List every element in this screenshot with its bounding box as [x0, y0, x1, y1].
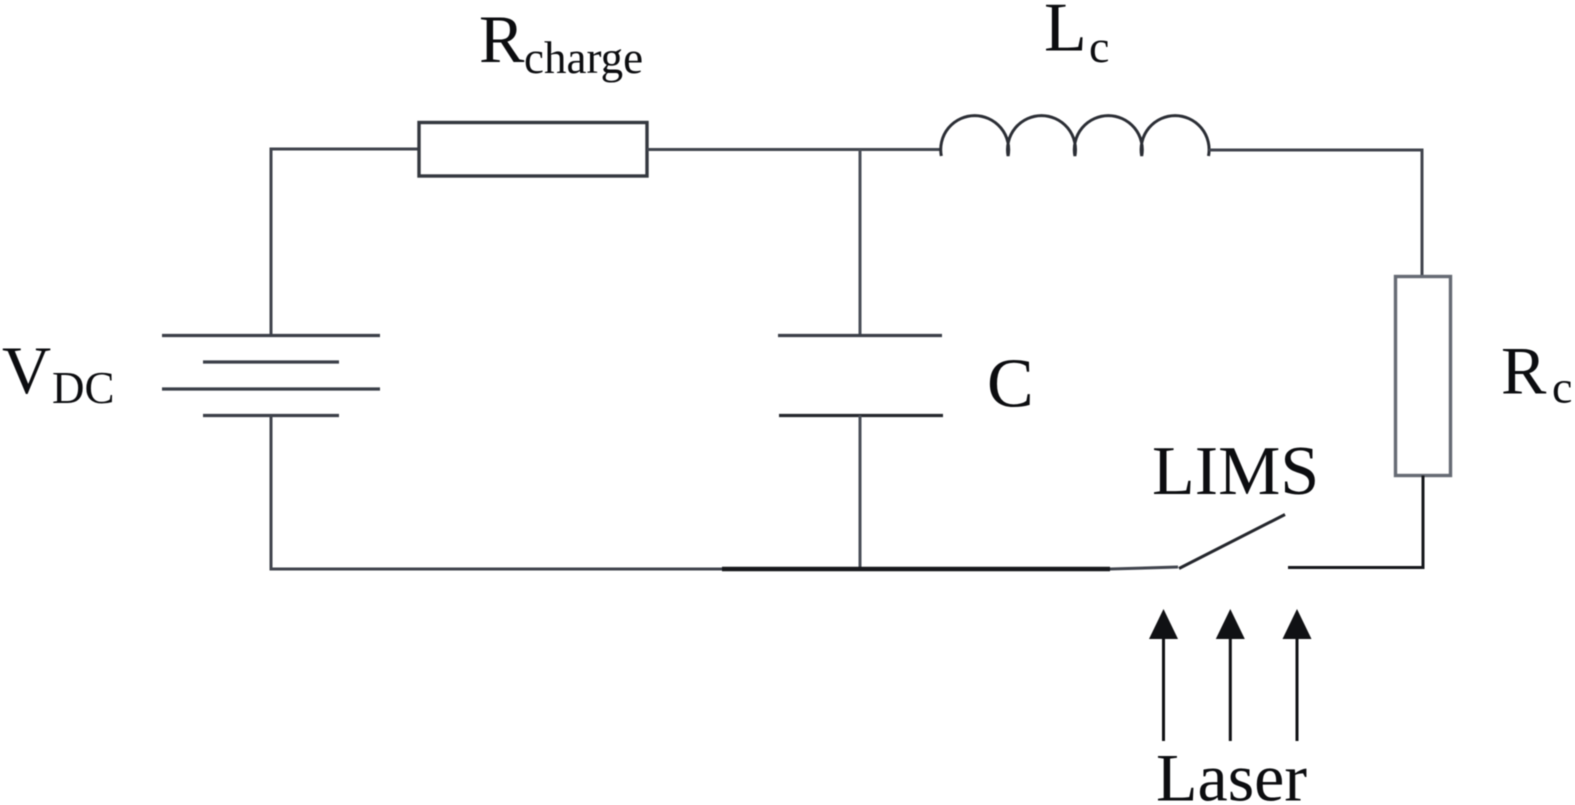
svg-text:R: R	[1501, 333, 1547, 409]
laser arrow 1 shaft	[1162, 634, 1165, 741]
battery V_DC plate 4 (short, bottom)	[203, 414, 339, 417]
wire: bottom-right horizontal (R_c to switch fixed contact)	[1288, 566, 1425, 569]
laser arrow 2 head	[1216, 609, 1245, 639]
wire: R_charge to capacitor node and inductor	[647, 148, 941, 151]
wire: capacitor lower lead	[859, 416, 862, 571]
svg-text:c: c	[1552, 362, 1572, 413]
wire: left vertical (battery positive lead)	[270, 148, 273, 337]
wire: top-left horizontal (battery + node to R_charge)	[270, 148, 420, 151]
svg-text:DC: DC	[52, 363, 115, 413]
wire: R_c lower lead	[1422, 476, 1425, 568]
battery V_DC plate 2 (short)	[203, 360, 339, 363]
laser arrow 2 shaft	[1229, 634, 1232, 741]
inductor L_c (4 arcs)	[941, 116, 1209, 156]
switch LIMS blade (open)	[1179, 515, 1285, 569]
battery V_DC plate 1 (long, top)	[162, 334, 380, 337]
battery V_DC plate 3 (long)	[162, 387, 380, 390]
laser arrow 3 shaft	[1296, 634, 1299, 741]
svg-text:C: C	[987, 346, 1034, 423]
svg-text:Laser: Laser	[1156, 740, 1307, 805]
svg-text:R: R	[479, 1, 525, 77]
svg-text:V: V	[2, 332, 51, 408]
svg-text:L: L	[1044, 0, 1087, 67]
resistor R_charge body	[419, 123, 647, 177]
laser arrow 3 head	[1283, 609, 1312, 639]
wire: capacitor upper lead	[859, 150, 862, 337]
wire: inductor to top-right corner	[1209, 149, 1424, 152]
capacitor C top plate	[778, 334, 942, 337]
resistor R_c body	[1396, 277, 1451, 476]
svg-text:LIMS: LIMS	[1152, 433, 1319, 510]
wire: left vertical (battery negative lead)	[270, 416, 273, 571]
capacitor C bottom plate	[779, 414, 943, 417]
wire: bottom rail thick segment	[722, 567, 1110, 572]
wire: bottom rail (battery - to switch pivot)	[270, 567, 1179, 569]
wire: right vertical (corner down to R_c)	[1421, 150, 1424, 278]
svg-text:c: c	[1089, 21, 1109, 72]
svg-text:charge: charge	[524, 33, 643, 83]
laser arrow 1 head	[1149, 609, 1178, 639]
